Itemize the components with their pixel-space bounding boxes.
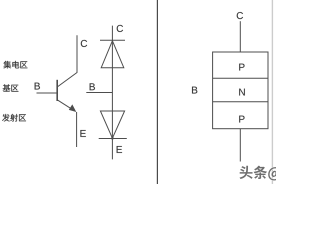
diode D1 triangle <box>101 41 124 68</box>
label E (transistor emitter) <box>80 130 85 137</box>
label B (PNP block base) <box>192 87 197 94</box>
wire: collector lead of PNP block <box>239 21 241 52</box>
label C (transistor collector) <box>81 40 87 47</box>
label C (diode model collector) <box>117 25 123 32</box>
label C (PNP block collector) <box>237 12 243 19</box>
wire: base wire to diode model node B <box>86 92 112 94</box>
label: emitter region text 发射区 <box>2 114 10 122</box>
transistor Q1 emitter lead <box>76 112 78 147</box>
label B (diode model base) <box>90 83 95 90</box>
diode D2 (B-E junction) triangle <box>100 111 124 138</box>
junction dot at E node <box>111 137 114 140</box>
label P (emitter region layer) <box>239 116 244 123</box>
transistor Q1 collector lead wire <box>57 35 77 87</box>
faint frame line right edge <box>271 0 273 184</box>
label: base region text 基区 <box>3 84 11 91</box>
label N (base region layer) <box>239 89 245 96</box>
label P (collector region layer) <box>239 64 244 71</box>
transistor Q1 base bar <box>56 80 58 101</box>
PNP box divider 1 <box>213 77 268 79</box>
PNP structure box <box>213 52 268 129</box>
label: collector region text 集电区 <box>3 61 11 69</box>
diode D1 (B-C junction) cathode bar <box>100 39 125 41</box>
PNP box divider 2 <box>213 101 268 103</box>
transistor Q1 emitter wire with arrow <box>57 100 73 110</box>
label E (diode model emitter) <box>117 146 122 153</box>
wire: emitter lead of PNP block <box>239 129 241 162</box>
transistor Q1 base wire <box>37 92 58 94</box>
wire: diode-model vertical wire C to E <box>111 26 113 160</box>
divider line between panels <box>156 0 158 184</box>
watermark 头条@ <box>240 166 253 179</box>
diode D2 cathode bar <box>99 138 127 140</box>
label B (transistor base) <box>35 83 40 90</box>
